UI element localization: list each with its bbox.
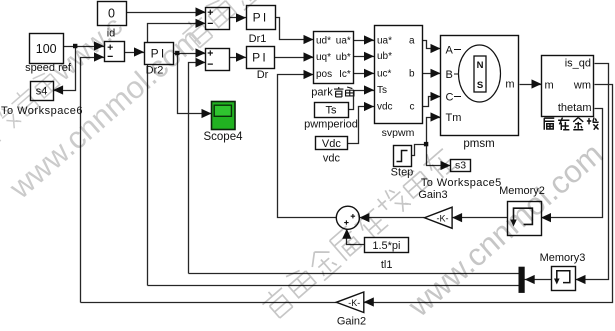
svg-text:PI: PI: [252, 51, 268, 65]
wire demux out 2 (id): [148, 285, 519, 287]
PI controller Dr2: [145, 43, 174, 65]
junction step branch: [424, 142, 428, 146]
svg-text:-K-: -K-: [348, 298, 360, 308]
wire Gain2 output left: [81, 302, 338, 304]
svg-text:C: C: [446, 92, 454, 104]
svg-text:1.5*pi: 1.5*pi: [372, 240, 400, 252]
svg-text:S: S: [477, 80, 483, 91]
arrowhead into svpwm vdc: [364, 102, 374, 111]
arrowhead into sum circle bottom: [342, 229, 351, 239]
wire sum1 to PI Dr1: [230, 17, 247, 19]
wire speed ref to sum0 +: [64, 46, 105, 48]
svg-text:Scope4: Scope4: [203, 131, 243, 143]
arrowhead into svpwm Ts: [364, 85, 374, 94]
wire speed feedback to sum0 -: [81, 58, 105, 303]
sum block id loop: [206, 8, 230, 30]
wire branch to Scope4: [178, 54, 212, 114]
svg-text:-K-: -K-: [437, 213, 449, 223]
wire Ts to svpwm: [349, 91, 375, 110]
To Workspace6 block s4: [31, 82, 54, 101]
gain block Gain3: [425, 207, 453, 228]
arrowhead into pmsm B: [431, 69, 441, 78]
memory block Memory2: [508, 202, 542, 236]
wire Step output: [411, 145, 427, 156]
wire const0 to sum1 +: [127, 12, 206, 14]
wire iq feedback to sum2 -: [189, 63, 206, 274]
wire PI Dr1 to park ud*: [276, 18, 314, 40]
measurement module block: [542, 56, 594, 117]
svg-text:Memory3: Memory3: [540, 252, 586, 264]
wire branch up to pmsm Tm: [427, 118, 441, 145]
arrowhead into Gain3: [452, 213, 462, 222]
svg-text:B: B: [446, 69, 453, 81]
wire demux out 1 (iq): [189, 273, 519, 275]
svg-text:100: 100: [36, 42, 57, 56]
svg-text:Dr: Dr: [257, 69, 269, 81]
pmsm rotor ellipse: [459, 45, 501, 102]
watermark run C bottom-middle diagonal: [259, 144, 458, 322]
svg-text:vdc: vdc: [323, 153, 341, 165]
svg-text:Gain2: Gain2: [337, 316, 366, 327]
arrowhead into sum0 -: [94, 52, 104, 61]
constant block Ts: [315, 103, 349, 118]
memory block Memory3: [552, 267, 576, 291]
gain block Gain2: [336, 292, 364, 313]
arrowhead into svpwm uc*: [364, 69, 374, 78]
arrowhead into park uq*: [304, 52, 314, 61]
svg-text:uq*: uq*: [316, 52, 331, 63]
wire thetam down to Memory2: [542, 109, 603, 218]
arrowhead into demux: [525, 275, 535, 284]
svg-text:ub*: ub*: [336, 52, 351, 63]
svg-text:Tm: Tm: [446, 112, 462, 124]
arrowhead into s3: [441, 161, 451, 170]
arrowhead into Dr2: [134, 47, 144, 56]
wire svpwm b to pmsm B: [423, 73, 441, 75]
arrowhead into Memory2: [541, 213, 551, 222]
park transform block: [314, 32, 354, 84]
svg-text:ub*: ub*: [377, 51, 392, 62]
svg-text:Ic*: Ic*: [339, 69, 351, 80]
arrowhead into park pos: [304, 70, 314, 79]
junction Dr2 output branch: [175, 51, 179, 55]
wire sum2 to PI Dr: [230, 57, 247, 59]
arrowhead into sum1 -: [196, 19, 206, 28]
wire is_qd down to Memory3: [576, 64, 609, 280]
constant block Vdc: [316, 137, 348, 150]
arrowhead into Dr1: [236, 13, 246, 22]
PI controller Dr: [247, 47, 275, 69]
arrowhead into sum circle right: [359, 213, 369, 222]
junction speed ref branch: [73, 44, 77, 48]
wire PI Dr to park uq*: [275, 57, 314, 59]
wire branch down to s3: [427, 145, 451, 166]
wire sum0 to PI Dr2: [125, 52, 145, 54]
svg-text:A: A: [446, 45, 454, 57]
label measurement module (CJK): [544, 118, 554, 130]
wire 1.5*pi to sum circle: [347, 229, 365, 245]
svg-text:ud*: ud*: [316, 36, 331, 47]
pmsm magnet bar N/S: [474, 56, 486, 92]
arrowhead into Memory3: [576, 275, 586, 284]
arrowhead into park ud*: [304, 35, 314, 44]
wire branch to s4: [54, 47, 76, 91]
sum block iq loop: [206, 49, 230, 71]
To Workspace5 block s3: [451, 160, 471, 172]
svg-text:park: park: [311, 87, 333, 99]
svg-text:ua*: ua*: [336, 36, 351, 47]
svg-text:b: b: [409, 69, 415, 80]
wire park ub* to svpwm: [354, 56, 375, 58]
arrowhead into sum2 +: [196, 48, 206, 57]
svg-text:a: a: [409, 36, 415, 47]
arrowhead into sum0 +: [94, 41, 104, 50]
svg-text:pmsm: pmsm: [463, 138, 494, 150]
svg-text:svpwm: svpwm: [382, 127, 415, 139]
wire svpwm c to pmsm C: [423, 97, 441, 107]
watermark run B bottom-right diagonal: [400, 135, 609, 324]
arrowhead into Scope4: [202, 109, 212, 118]
pmsm motor block: [441, 36, 519, 136]
wire park ua* to svpwm: [354, 40, 375, 42]
demux bar: [519, 267, 525, 293]
wire svpwm a to pmsm A: [423, 41, 441, 49]
wire wm down to Gain2: [364, 85, 613, 303]
arrowhead into s4: [53, 85, 63, 94]
watermark run D upper-left diagonal: [0, 10, 128, 193]
svg-text:N: N: [477, 60, 484, 71]
svpwm block: [375, 26, 423, 124]
watermark run A lower-left diagonal: [2, 0, 334, 206]
wire Memory3 to demux: [525, 279, 552, 281]
scope block Scope4: [212, 102, 236, 130]
step source block: [394, 146, 412, 167]
PI controller Dr1: [247, 6, 276, 30]
svg-text:m: m: [505, 79, 514, 91]
svg-text:pos: pos: [316, 69, 332, 80]
svg-text:m: m: [545, 80, 554, 92]
svg-text:tl1: tl1: [381, 259, 393, 271]
constant block 1.5*pi: [365, 238, 409, 253]
arrowhead into svpwm ub*: [364, 52, 374, 61]
svg-text:thetam: thetam: [558, 102, 592, 114]
svg-text:is_qd: is_qd: [565, 58, 591, 70]
arrowhead into pmsm A: [431, 44, 441, 53]
svg-text:Ts: Ts: [377, 85, 387, 96]
svg-text:pwmperiod: pwmperiod: [304, 119, 358, 131]
wire Vdc to svpwm: [348, 107, 375, 144]
svg-text:Dr1: Dr1: [249, 33, 267, 45]
arrowhead into pmsm Tm: [431, 112, 441, 121]
arrowhead into Gain2: [364, 297, 374, 306]
constant block id value 0: [98, 2, 127, 26]
arrowhead into sum2 -: [196, 58, 206, 67]
svg-text:vdc: vdc: [377, 102, 393, 113]
sum block speed loop: [105, 42, 125, 62]
wire Memory2 to Gain3: [453, 217, 508, 219]
wire park Ic* to svpwm uc*: [354, 73, 375, 75]
wire sum circle output up to park pos: [278, 75, 337, 218]
svg-text:wm: wm: [573, 80, 591, 92]
svg-text:Ts: Ts: [326, 105, 338, 117]
constant block speed ref = 100: [30, 34, 64, 64]
svg-text:To Workspace5: To Workspace5: [421, 177, 502, 189]
arrowhead into svpwm ua*: [364, 35, 374, 44]
svg-text:ua*: ua*: [377, 36, 392, 47]
arrowhead into measure m: [532, 79, 542, 88]
wire id feedback up to sum1 -: [148, 24, 206, 286]
wire Gain3 to sum circle: [360, 217, 425, 219]
svg-text:PI: PI: [253, 11, 269, 25]
arrowhead into sum1 +: [196, 7, 206, 16]
wire pmsm m to measure module: [520, 84, 542, 86]
wire PI Dr2 to sum2 +: [174, 53, 206, 55]
svg-text:Vdc: Vdc: [322, 138, 341, 150]
arrowhead into pmsm C: [431, 92, 441, 101]
sum circle block: [336, 206, 359, 229]
svg-text:c: c: [410, 102, 415, 113]
arrowhead into Dr: [236, 53, 246, 62]
svg-text:uc*: uc*: [377, 69, 392, 80]
